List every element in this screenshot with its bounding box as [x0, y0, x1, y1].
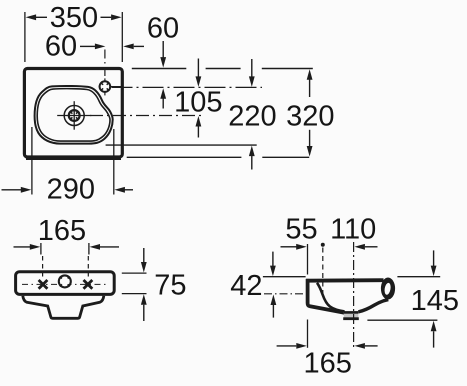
- drain crosshair: [73, 101, 75, 130]
- dimension 290: [2, 189, 22, 191]
- faucet hole crosshair stubs: [104, 78, 106, 82]
- svg-text:75: 75: [154, 270, 186, 302]
- dimension 75 reference lines: [122, 272, 147, 274]
- svg-text:42: 42: [230, 270, 262, 302]
- front view: skirt and pedestal: [23, 296, 104, 319]
- drain centerline side view: [353, 242, 355, 348]
- dimension 350: [26, 14, 122, 20]
- svg-text:350: 350: [50, 2, 98, 34]
- top view: bowl outer outline: [35, 86, 113, 144]
- top view: faucet hole: [100, 81, 111, 92]
- svg-text:220: 220: [228, 101, 276, 133]
- svg-text:110: 110: [330, 214, 376, 246]
- svg-text:165: 165: [304, 348, 352, 380]
- faucet centerline dashed vertical: [104, 50, 106, 80]
- dimension 165 side: [277, 345, 297, 347]
- svg-text:60: 60: [45, 30, 77, 62]
- dimension 320: [307, 69, 313, 80]
- top edge reference line (extended right): [132, 68, 187, 70]
- top view: drain inner circle: [69, 110, 80, 121]
- dimension 75: [143, 248, 145, 262]
- dimension 145: [397, 276, 440, 278]
- dimension 42: [263, 276, 306, 278]
- dimension 290 extension lines: [31, 127, 33, 195]
- front view: left mounting hole cross: [39, 280, 48, 289]
- svg-text:290: 290: [47, 174, 95, 206]
- top view: sink rim square: [24, 69, 122, 158]
- sink bottom reference line: [127, 156, 242, 158]
- left wall extension line: [307, 244, 309, 275]
- side view: rear hanger ring: [381, 278, 395, 300]
- svg-text:145: 145: [411, 285, 459, 317]
- svg-text:60: 60: [147, 13, 179, 45]
- front view: right mounting hole cross: [84, 280, 93, 289]
- dimension 165 front: extension ticks: [40, 243, 42, 255]
- side view: top rim edge: [306, 278, 384, 282]
- svg-text:105: 105: [174, 87, 222, 119]
- top view: bowl inner outline: [37, 89, 110, 141]
- svg-text:320: 320: [286, 101, 334, 133]
- dimension 105: [197, 59, 199, 77]
- dashed lines to holes: [42, 256, 44, 280]
- svg-text:55: 55: [285, 214, 317, 246]
- svg-text:165: 165: [38, 215, 86, 247]
- top view: drain outer circle: [64, 106, 84, 126]
- top view: sink rim bottom shadow: [26, 158, 121, 160]
- front view: overflow circle: [59, 275, 71, 287]
- bowl bottom reference line: [106, 144, 257, 146]
- front view: rim box: [16, 272, 115, 295]
- front view: holes centerline: [22, 283, 108, 285]
- side view: left wall: [308, 279, 345, 313]
- side view: drain trap box: [344, 312, 359, 319]
- dimension 60 right arrow at sink edge: [123, 44, 134, 50]
- dimension 350 extension lines: [24, 12, 26, 62]
- faucet dashed line side view: [322, 248, 324, 297]
- drain centerline dash-dot to the right: [90, 115, 204, 117]
- side view: faucet dot marker: [321, 243, 325, 247]
- side view: inner bowl slope: [317, 283, 345, 312]
- side view: right underside curve: [358, 300, 388, 312]
- dimension 220: [251, 59, 253, 77]
- faucet centerline dash-dot (extended right): [112, 86, 263, 88]
